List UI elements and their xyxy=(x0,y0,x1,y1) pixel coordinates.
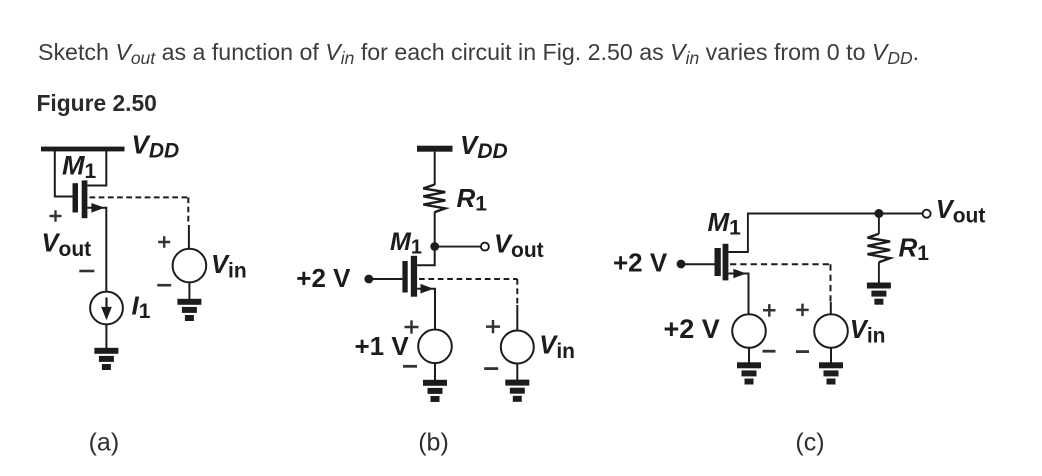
wire: +1V source to ground (b) xyxy=(434,363,436,380)
resistor R1 zigzag (c) xyxy=(868,234,891,262)
plus sign of +1V source (b) xyxy=(405,320,419,333)
ground below Vin (b) xyxy=(505,380,529,402)
svg-text:+1 V: +1 V xyxy=(355,331,410,361)
transistor M1 channel bar (c) xyxy=(723,244,729,281)
svg-text:R1: R1 xyxy=(457,183,488,216)
wire: Vin source to ground (b) xyxy=(516,364,518,381)
svg-text:M1: M1 xyxy=(390,228,422,259)
VDD supply bar (b) xyxy=(417,146,453,152)
svg-text:M1: M1 xyxy=(708,207,742,240)
wire: dashed net to Vin source top (c) xyxy=(830,302,832,315)
wire: node down to drain of M1 (b) xyxy=(417,247,435,266)
wire: +2V source to ground (c) xyxy=(748,348,750,363)
minus sign of Vin (b) xyxy=(484,367,498,370)
wire: resistor R1 to output node (b) xyxy=(434,212,436,248)
ground below Vin (c) xyxy=(819,362,843,384)
svg-text:Vout: Vout xyxy=(936,196,986,228)
svg-text:Vin: Vin xyxy=(850,316,886,348)
wire: resistor R1 to ground (c) xyxy=(878,262,880,283)
minus sign of Vout (a) xyxy=(79,270,94,273)
svg-text:+2 V: +2 V xyxy=(613,247,668,277)
transistor M1 gate bar (b) xyxy=(402,261,407,293)
plus sign of Vout (a) xyxy=(50,210,62,221)
minus sign of Vin (c) xyxy=(796,350,809,353)
minus sign of +2V source (c) xyxy=(763,350,776,353)
wire: node down to resistor R1 (c) xyxy=(878,214,880,234)
wire: +2V node to gate of M1 (c) xyxy=(681,263,715,265)
wire: source of M1 down to +1V source (b) xyxy=(417,289,435,330)
dashed wire: gate net to Vin (b) xyxy=(419,279,517,305)
transistor M1 gate bar (a) xyxy=(73,183,79,212)
svg-text:VDD: VDD xyxy=(460,130,508,163)
ground below +2V source (c) xyxy=(737,362,761,384)
svg-text:Vout: Vout xyxy=(42,229,92,260)
open terminal Vout (c) xyxy=(923,210,931,218)
svg-text:Vout: Vout xyxy=(494,230,544,261)
plus sign of Vin (c) xyxy=(796,304,809,317)
plus sign of Vin (b) xyxy=(486,320,500,333)
wire: source of M1 down to I1 (a) xyxy=(87,208,106,292)
transistor M1 gate bar (c) xyxy=(715,248,721,276)
wire: VDD bar to resistor R1 (b) xyxy=(434,152,436,185)
node: output junction dot (c) xyxy=(874,209,883,218)
wire: +2V node to gate of M1 (b) xyxy=(369,278,403,280)
svg-text:+2 V: +2 V xyxy=(664,314,720,344)
wire: dashed net to Vin source top (a) xyxy=(188,225,190,249)
wire: node to Vout terminal (c) xyxy=(879,213,922,215)
source arrow of M1 (a) xyxy=(91,203,104,213)
node: +2V gate terminal dot (c) xyxy=(677,260,686,269)
transistor M1 channel bar (a) xyxy=(82,180,88,218)
svg-text:VDD: VDD xyxy=(132,130,180,163)
svg-text:+2 V: +2 V xyxy=(296,263,351,293)
ground below I1 (a) xyxy=(94,348,118,370)
dashed wire: gate net to Vin (a) xyxy=(90,197,189,225)
minus sign of +1V source (b) xyxy=(403,365,417,368)
svg-text:M1: M1 xyxy=(62,150,97,183)
wire: drain of M1 up and across to output node (c) xyxy=(728,214,879,253)
voltage source Vin circle (b) xyxy=(501,331,534,364)
svg-text:Vin: Vin xyxy=(539,332,575,364)
node: +2V gate terminal dot (b) xyxy=(364,275,373,284)
transistor M1 channel bar (b) xyxy=(411,256,417,297)
svg-text:Vin: Vin xyxy=(211,251,247,283)
svg-text:(a): (a) xyxy=(89,429,120,457)
current source I1 circle (a) xyxy=(90,292,123,325)
plus sign of +2V source (c) xyxy=(763,304,776,317)
svg-text:R1: R1 xyxy=(899,233,930,266)
wire: gate to VDD rail (a) xyxy=(55,151,73,197)
voltage source +1V circle (b) xyxy=(418,330,452,364)
ground below R1 (c) xyxy=(867,283,891,305)
voltage source Vin circle (c) xyxy=(814,314,848,348)
resistor R1 zigzag (b) xyxy=(423,185,445,213)
ground below Vin (a) xyxy=(177,299,201,321)
svg-text:Sketch Vout as a function of V: Sketch Vout as a function of Vin for eac… xyxy=(38,39,919,68)
wire: Vin source to ground (a) xyxy=(188,282,190,299)
svg-text:Figure 2.50: Figure 2.50 xyxy=(37,90,157,116)
wire: node to Vout terminal (b) xyxy=(435,246,481,248)
source arrow of M1 (b) xyxy=(421,284,434,294)
wire: I1 to ground (a) xyxy=(105,324,107,348)
wire: dashed net to Vin source top (b) xyxy=(516,305,518,331)
node: drain/output junction dot (b) xyxy=(430,242,439,251)
svg-text:(b): (b) xyxy=(418,429,449,457)
voltage source +2V circle (c) xyxy=(732,314,766,348)
wire: drain to VDD rail (a) xyxy=(87,151,106,186)
voltage source Vin circle (a) xyxy=(173,249,207,283)
ground below +1V source (b) xyxy=(423,380,447,402)
svg-text:I1: I1 xyxy=(132,291,151,324)
wire: source of M1 down to +2V source (c) xyxy=(728,274,748,315)
VDD supply rail (a) xyxy=(41,147,125,152)
svg-text:(c): (c) xyxy=(795,429,824,457)
wire: Vin source to ground (c) xyxy=(830,348,832,363)
dashed wire: gate net to Vin (c) xyxy=(730,264,831,302)
current source I1 arrow (a) xyxy=(105,298,107,310)
open terminal Vout (b) xyxy=(481,243,489,251)
source arrow of M1 (c) xyxy=(733,269,746,279)
plus sign of Vin (a) xyxy=(158,236,170,247)
minus sign of Vin (a) xyxy=(157,284,171,287)
